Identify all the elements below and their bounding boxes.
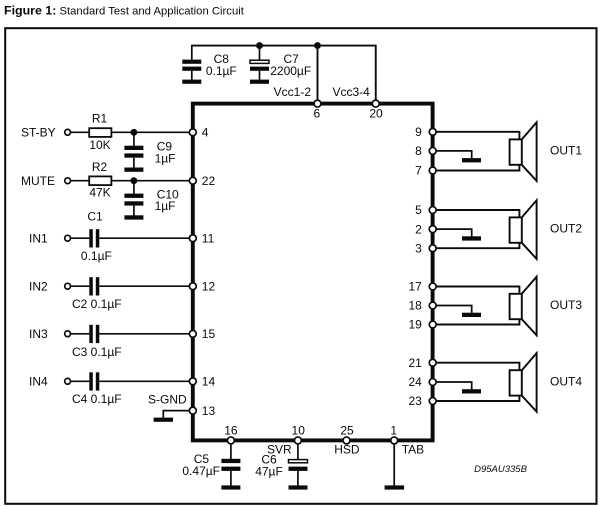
label OUT1 [550,144,582,158]
svg-text:OUT1: OUT1 [550,144,582,158]
terminal IN4 [65,378,71,384]
svg-text:IN1: IN1 [29,231,48,245]
wire pin 23 to speaker OUT4 [436,396,519,401]
pin 22 [189,177,196,184]
wire R1 to pin 4 [111,131,192,133]
label OUT3 [550,298,582,312]
capacitor C4 [89,372,99,390]
svg-text:25: 25 [340,424,354,438]
svg-text:TAB: TAB [402,443,424,457]
label C2 0.1uF [72,297,122,311]
svg-text:Figure 1: Standard Test and Ap: Figure 1: Standard Test and Application … [4,4,245,18]
label D95AU335B [474,464,527,475]
resistor R2 [89,176,111,185]
ground bar of C8 [182,80,201,84]
svg-text:IN4: IN4 [29,375,48,389]
junction at pin 6 drop [314,42,321,49]
node label ST-BY [21,126,56,140]
svg-text:19: 19 [408,318,422,332]
pin number 13 [202,404,216,418]
wire drop to pin 6 [317,46,319,104]
terminal IN2 [65,283,71,289]
ground OUT4 [462,389,481,393]
svg-text:1µF: 1µF [155,199,176,213]
pin number 17 [408,280,422,294]
terminal IN3 [65,331,71,337]
pin 16 [227,437,234,444]
net label S-GND [148,392,187,406]
wire top supply rail [192,45,376,47]
ground OUT2 [462,236,481,240]
svg-text:C2 0.1µF: C2 0.1µF [72,297,122,311]
svg-text:Vcc3-4: Vcc3-4 [333,85,371,99]
label C6 47uF [255,453,283,479]
wire IN2 to C2 [70,285,89,287]
svg-text:OUT3: OUT3 [550,298,582,312]
speaker OUT1 [510,122,537,181]
capacitor C5 [221,445,240,486]
svg-text:47K: 47K [89,185,110,199]
ground S-GND [154,418,173,422]
pin number 20 [369,106,383,120]
wire drop to pin 20 [375,45,377,104]
label C5 0.47uF [182,452,220,478]
pin number 18 [408,299,422,313]
pin number 7 [415,164,422,178]
wire IN1 to C1 [70,237,89,239]
svg-text:21: 21 [408,356,422,370]
svg-text:18: 18 [408,299,422,313]
label C9 1uF [155,140,176,166]
pin 20 [372,100,379,107]
wire pin 7 to speaker OUT1 [436,165,519,171]
net label TAB [402,443,424,457]
ground bar of C7 [250,80,269,84]
svg-text:IN2: IN2 [29,279,48,293]
svg-text:IN3: IN3 [29,327,48,341]
svg-text:MUTE: MUTE [21,174,55,188]
wire C1 to pin 11 [99,237,193,239]
pin number 8 [415,144,422,158]
pin 19 [429,321,436,328]
svg-text:0.1µF: 0.1µF [206,64,237,78]
label 10K [89,138,110,152]
junction at C7 [256,42,263,49]
pin number 16 [224,424,238,438]
capacitor C3 [89,325,99,343]
ground OUT3 [462,313,481,317]
svg-text:3: 3 [415,241,422,255]
pin number 21 [408,356,422,370]
ground bar of C9 [124,168,143,172]
pin number 14 [202,375,216,389]
pin number 11 [202,231,215,245]
svg-text:23: 23 [408,394,422,408]
svg-text:D95AU335B: D95AU335B [474,464,527,475]
svg-text:0.1µF: 0.1µF [81,249,112,263]
capacitor C1 [89,229,99,247]
net label Vcc3-4 [333,85,371,99]
IC U1 body [193,104,433,441]
svg-text:16: 16 [224,424,238,438]
terminal MUTE [65,178,71,184]
pin number 25 [340,424,354,438]
terminal IN1 [65,235,71,241]
net label Vcc1-2 [274,85,312,99]
svg-text:C3 0.1µF: C3 0.1µF [72,345,122,359]
label R2 [92,160,108,174]
wire IN3 to C3 [70,333,89,335]
pin 15 [189,330,196,337]
wire pin 9 to speaker OUT1 [436,132,519,140]
ground TAB [385,485,405,489]
wire pin 24 to ground [436,382,472,389]
label R1 [92,111,108,125]
pin 18 [429,302,436,309]
svg-text:S-GND: S-GND [148,392,187,406]
wire pin 5 to speaker OUT2 [436,210,519,217]
svg-text:C4 0.1µF: C4 0.1µF [72,392,122,406]
pin 1 [391,437,398,444]
svg-text:0.47µF: 0.47µF [182,464,220,478]
capacitor C8 [182,45,201,80]
pin number 9 [415,125,422,139]
svg-text:10K: 10K [89,138,110,152]
resistor R1 [89,128,111,137]
pin 8 [429,147,436,154]
capacitor C2 [89,277,99,295]
svg-text:12: 12 [202,279,216,293]
pin number 4 [202,126,209,140]
net label HSD [334,443,360,457]
svg-text:8: 8 [415,144,422,158]
label C4 0.1uF [72,392,122,406]
label 0.1uF [81,249,112,263]
title Figure 1 [4,4,245,18]
wire IN4 to C4 [70,380,89,382]
label C1 [87,209,103,223]
label OUT4 [550,374,582,388]
pin 13 [189,407,196,414]
speaker OUT2 [510,200,537,259]
svg-text:5: 5 [415,203,422,217]
pin number 10 [292,424,306,438]
wire pin 3 to speaker OUT2 [436,243,519,248]
speaker OUT3 [510,277,537,336]
label C10 1uF [155,187,179,213]
wire C2 to pin 12 [99,285,193,287]
pin number 1 [390,424,397,438]
wire ST-BY to R1 [70,131,89,133]
pin 3 [429,245,436,252]
capacitor C10 [124,181,143,216]
pin 9 [429,128,436,135]
svg-text:R2: R2 [92,160,108,174]
pin number 23 [408,394,422,408]
pin number 24 [408,375,422,389]
pin number 12 [202,279,216,293]
pin 6 [314,100,321,107]
svg-text:OUT4: OUT4 [550,374,582,388]
label C8 0.1uF [206,52,237,78]
pin 2 [429,226,436,233]
wire pin 21 to speaker OUT4 [436,363,519,371]
svg-text:17: 17 [408,280,422,294]
svg-text:Vcc1-2: Vcc1-2 [274,85,312,99]
pin number 19 [408,318,422,332]
svg-text:7: 7 [415,164,422,178]
net label SVR [267,443,292,457]
pin 23 [429,398,436,405]
svg-text:ST-BY: ST-BY [21,126,56,140]
junction at C10 [130,177,137,184]
svg-text:20: 20 [369,106,383,120]
pin 5 [429,207,436,214]
ground bar of C6 [289,485,308,489]
wire C4 to pin 14 [99,380,193,382]
node label IN1 [29,231,48,245]
capacitor C9 [124,132,143,167]
svg-text:10: 10 [292,424,306,438]
svg-text:R1: R1 [92,111,108,125]
pin 21 [429,359,436,366]
pin 14 [189,378,196,385]
pin number 6 [313,106,320,120]
wire TAB to ground [393,445,395,486]
ground bar of C5 [221,485,240,489]
ground bar of C10 [124,215,143,219]
svg-text:15: 15 [202,327,216,341]
pin number 3 [415,241,422,255]
svg-text:11: 11 [202,231,215,245]
node label IN3 [29,327,48,341]
wire pin 8 to ground [436,151,472,158]
capacitor C6 (polarized) [289,445,308,486]
svg-text:HSD: HSD [334,443,360,457]
svg-text:6: 6 [313,106,320,120]
pin 7 [429,167,436,174]
pin 10 [294,437,301,444]
pin 11 [189,235,196,242]
pin 4 [189,129,196,136]
node label MUTE [21,174,55,188]
wire pin 17 to speaker OUT3 [436,287,519,294]
wire R2 to pin 22 [111,180,192,182]
svg-text:4: 4 [202,126,209,140]
svg-text:9: 9 [415,125,422,139]
capacitor C7 (polarized) [250,46,269,80]
svg-text:C1: C1 [87,209,103,223]
svg-text:22: 22 [202,174,216,188]
wire pin 19 to speaker OUT3 [436,319,519,324]
ground OUT1 [462,158,481,162]
svg-text:1: 1 [390,424,397,438]
wire pin 13 to ground [163,411,193,418]
svg-text:2200µF: 2200µF [270,64,311,78]
pin number 5 [415,203,422,217]
label 47K [89,185,110,199]
label OUT2 [550,222,582,236]
svg-text:14: 14 [202,375,216,389]
wire MUTE to R2 [70,180,89,182]
svg-text:47µF: 47µF [255,464,283,478]
wire pin 2 to ground [436,229,472,236]
junction at C9 [130,129,137,136]
wire pin 18 to ground [436,306,472,313]
svg-text:1µF: 1µF [155,152,176,166]
svg-text:13: 13 [202,404,216,418]
node label IN4 [29,375,48,389]
speaker OUT4 [510,353,537,412]
terminal ST-BY [65,129,71,135]
pin number 2 [415,222,422,236]
label C3 0.1uF [72,345,122,359]
node label IN2 [29,279,48,293]
wire C3 to pin 15 [99,333,193,335]
svg-text:OUT2: OUT2 [550,222,582,236]
svg-text:24: 24 [408,375,422,389]
label C7 2200uF [270,52,311,78]
pin 24 [429,379,436,386]
pin number 15 [202,327,216,341]
pin 17 [429,283,436,290]
pin number 22 [202,174,216,188]
pin 12 [189,283,196,290]
svg-text:2: 2 [415,222,422,236]
pin 25 [343,437,350,444]
